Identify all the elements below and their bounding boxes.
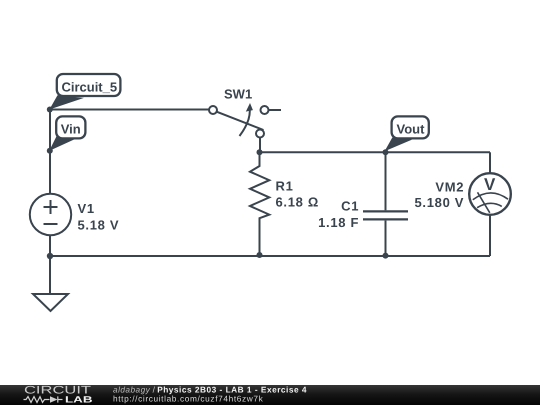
svg-text:LAB: LAB	[65, 395, 93, 405]
svg-text:5.180 V: 5.180 V	[414, 195, 464, 210]
svg-text:SW1: SW1	[224, 86, 252, 101]
svg-text:6.18 Ω: 6.18 Ω	[276, 195, 320, 210]
svg-text:Circuit_5: Circuit_5	[61, 80, 117, 95]
svg-text:http://circuitlab.com/cuzf74ht: http://circuitlab.com/cuzf74ht6zw7k	[113, 393, 264, 403]
svg-text:C1: C1	[341, 198, 359, 213]
svg-text:V: V	[484, 175, 496, 194]
svg-text:V1: V1	[78, 201, 95, 216]
svg-text:Vin: Vin	[61, 122, 81, 137]
svg-text:5.18 V: 5.18 V	[78, 218, 120, 233]
svg-text:VM2: VM2	[435, 180, 464, 195]
svg-text:R1: R1	[276, 178, 294, 193]
svg-text:1.18 F: 1.18 F	[318, 215, 359, 230]
svg-text:Vout: Vout	[397, 121, 426, 136]
